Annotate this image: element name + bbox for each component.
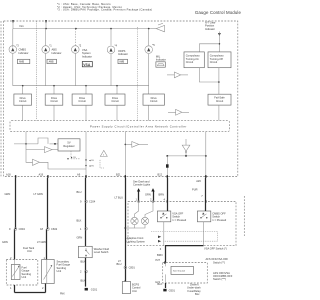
wire turning-off down (218, 68, 220, 95)
svg-text:Circuit: Circuit (186, 60, 194, 64)
drop drive5 to power band (148, 105, 150, 120)
buffer triangle T1 (45, 147, 53, 153)
box VSA OFF switch SW2 (157, 211, 170, 222)
wire CMBS switch down (202, 222, 204, 246)
5V regulator dashed output (70, 151, 72, 159)
svg-text:IG1: IG1 (20, 24, 25, 28)
wire ABS to bus (45, 54, 47, 86)
svg-text:Indicator: Indicator (118, 52, 128, 56)
drop to drive circuit 2 (53, 86, 55, 94)
diode at rail end (150, 28, 156, 30)
pin tick B12 (167, 175, 168, 178)
wire MIL down (148, 54, 150, 94)
svg-text:C602: C602 (51, 227, 58, 231)
wire A26 to border (205, 132, 207, 177)
svg-text:Circuit: Circuit (111, 99, 119, 103)
drop drive2 to power band (53, 105, 55, 120)
box BCPS control unit (122, 282, 130, 294)
AFS arrow 2 (158, 240, 161, 243)
lamp ODPS indicator (107, 46, 115, 54)
wire into T2 (26, 150, 33, 163)
drop to drive circuit 4 (116, 86, 118, 94)
cathode bus (13, 85, 149, 87)
wire fuel sender to ground bus (14, 285, 16, 293)
pin tick top border x13 (12, 20, 13, 22)
svg-text:C204: C204 (89, 200, 96, 204)
pin tick A18 (15, 175, 16, 178)
pin tick P27 entry (164, 261, 165, 263)
svg-text:VSA: VSA (83, 63, 91, 67)
drop to drive circuit 1 (22, 86, 24, 94)
pin ring 1 (138, 201, 140, 203)
main wire band to border B-pin (85, 132, 87, 177)
junction squares (167, 155, 169, 157)
svg-text:PUR: PUR (192, 187, 198, 191)
svg-text:B21: B21 (116, 173, 121, 177)
node 5V arrow a (71, 158, 80, 160)
svg-text:AMB: AMB (19, 61, 24, 64)
wire rail to MIL (148, 29, 150, 46)
wire to buffer T3 (125, 143, 132, 145)
wire secondary to ground bus (45, 284, 47, 293)
wire rail to ABS indicator (45, 29, 47, 46)
box drive circuit 3 (72, 94, 92, 105)
svg-text:Indicator: Indicator (205, 27, 215, 31)
svg-text:Circuit: Circuit (50, 99, 58, 103)
output bus of T4 (167, 155, 206, 157)
svg-text:BLK: BLK (157, 282, 162, 286)
svg-text:GRN: GRN (5, 192, 11, 196)
connector C602 (47, 228, 50, 231)
wire pin4 to VSA switch (167, 202, 169, 212)
package partition dashed line 2 (137, 27, 139, 121)
svg-text:Circuit: Circuit (216, 99, 224, 103)
svg-text:Unit: Unit (27, 249, 32, 253)
wire A/T indicator down (218, 32, 220, 52)
svg-text:P27: P27 (156, 258, 161, 262)
wire inside fuse box lower (165, 274, 167, 283)
driver's under-dash fuse/relay dashed box (163, 263, 208, 284)
drop to drive circuit 3 (85, 86, 87, 94)
gauge control module boundary (dashed box) (4, 21, 238, 177)
INTERNALS (6, 132, 207, 183)
arrow wire dash lights 2 (153, 191, 155, 202)
svg-text:AMB: AMB (49, 61, 54, 64)
wire inside fuse box upper (165, 263, 167, 267)
box compulsory turning-off circuit (208, 52, 231, 68)
svg-text:A19: A19 (39, 173, 44, 177)
buffer triangle MIL upper (174, 72, 180, 78)
connector washer 1 (85, 227, 88, 230)
wire ODPS to bus (110, 54, 112, 86)
box washer fluid level switch SW1 (78, 246, 92, 257)
junction dot at regulator input (54, 143, 56, 145)
resistor R1 (38, 138, 48, 144)
svg-text:A9: A9 (77, 173, 81, 177)
svg-text:Switch (***): Switch (***) (213, 277, 226, 281)
svg-text:1 = Pressed: 1 = Pressed (212, 218, 226, 222)
svg-text:▶ 5V: ▶ 5V (71, 156, 77, 159)
box drive circuit 5 MIL (143, 94, 164, 105)
svg-text:LT BLU: LT BLU (115, 195, 124, 199)
wire A26 down (205, 178, 207, 202)
pin tick 4 (167, 200, 168, 202)
svg-text:GRN: GRN (77, 236, 83, 240)
wire join to P27 (166, 246, 204, 263)
junction dot join (218, 81, 220, 83)
svg-text:◀ 5V: ◀ 5V (89, 159, 95, 162)
svg-text:Circuit: Circuit (210, 60, 218, 64)
svg-text:1 = Pressed: 1 = Pressed (172, 218, 186, 222)
wire CMBS to bus (12, 54, 14, 86)
lamp MIL indicator (145, 46, 153, 54)
svg-text:Circuit: Circuit (19, 99, 27, 103)
power supply / CAN controller dashed box (10, 121, 229, 132)
svg-text:Level Switch: Level Switch (94, 250, 109, 254)
svg-text:GRN: GRN (145, 193, 151, 197)
svg-text:Unit: Unit (132, 289, 137, 293)
pin tick B21 (125, 175, 126, 178)
drop drive1 to power band (22, 105, 24, 120)
dash and console lights dashed box (128, 202, 236, 246)
wire T2 output (40, 162, 87, 169)
buffer triangle MIL lower (176, 109, 182, 115)
svg-text:BRN: BRN (157, 253, 163, 257)
box ODPS color (118, 59, 128, 63)
box fail-safe circuit (208, 94, 231, 105)
svg-text:VSA OFF Switch (*): VSA OFF Switch (*) (204, 247, 227, 251)
junction dot B21 branch (125, 144, 127, 146)
wire B21 down to AFS (125, 178, 127, 282)
BOTTOM (2, 178, 244, 296)
wire turning-on down (199, 68, 219, 82)
svg-text:Switch (**): Switch (**) (213, 260, 225, 264)
package partition dashed line (36, 21, 38, 121)
wire rail to ODPS indicator (110, 29, 112, 46)
pin stub top border x46 (45, 21, 47, 29)
svg-text:A26: A26 (196, 179, 201, 183)
inverter triangle T4 (down) (182, 145, 190, 151)
wire into T1 (26, 144, 45, 150)
ground G201 (85, 272, 87, 287)
box CMBS OFF switch SW3 (197, 211, 210, 222)
junction lamps bus (124, 227, 126, 229)
right page edge dashed (243, 196, 245, 236)
svg-text:C801: C801 (129, 266, 136, 270)
supply wire to 5V regulator (14, 143, 38, 145)
wire rail to CMBS indicator (12, 29, 14, 46)
buffer triangle T2 (33, 159, 40, 165)
svg-text:◀ 5V: ◀ 5V (89, 165, 95, 168)
fuel tank unit dashed box (6, 260, 38, 286)
secondary fuel gauge sending unit box (42, 260, 55, 284)
svg-text:AMB: AMB (119, 61, 124, 64)
svg-text:PNK: PNK (60, 294, 65, 296)
svg-text:Console Lights: Console Lights (133, 183, 151, 187)
lamp CMBS indicator (9, 46, 17, 54)
drop drive4 to power band (116, 105, 118, 120)
svg-text:Box: Box (195, 292, 200, 296)
LEGEND (57, 2, 241, 15)
svg-text:BLU: BLU (117, 262, 122, 266)
lamp AFS right feed (145, 202, 153, 218)
svg-text:Gauge Control Module: Gauge Control Module (195, 10, 242, 15)
inner ground link box (171, 266, 193, 274)
connector C801 (124, 266, 127, 269)
svg-text:BLU: BLU (77, 190, 82, 194)
wire A19 to secondary sender (47, 178, 49, 229)
MODULE (1, 21, 238, 177)
box AMB color (17, 59, 29, 63)
dashed wire rail to VSA indicator (74, 29, 76, 46)
box compulsory turning-on circuit (184, 52, 204, 68)
pin tick A9 (85, 175, 86, 178)
wire B12 to border (166, 156, 168, 177)
pin tick BCPS entry (125, 280, 126, 282)
svg-text:See Ground: See Ground (173, 270, 186, 273)
junction dot supply (25, 143, 27, 145)
lamps ground bus (135, 225, 146, 228)
svg-text:LT GRN: LT GRN (37, 240, 46, 244)
wire VSA switch down (163, 222, 165, 246)
dashed link right of arrows (100, 160, 104, 168)
lamp AFS left feed (135, 202, 139, 218)
svg-text:Power Supply Circuit/Controlle: Power Supply Circuit/Controller Area Net… (90, 125, 187, 129)
fuel gauge sending unit R2 (11, 265, 20, 280)
svg-text:Indicator: Indicator (52, 51, 62, 55)
svg-text:Circuit: Circuit (150, 99, 158, 103)
arrow wire dash lights 1 (138, 191, 140, 202)
connector washer 2 (85, 270, 88, 273)
svg-text:C604: C604 (19, 227, 26, 231)
drop drive3 to power band (85, 105, 87, 120)
pin tick 7 (205, 200, 206, 202)
box drive circuit 4 (105, 94, 125, 105)
lamp AFS right (141, 217, 148, 224)
wire fail-safe to band (218, 105, 220, 121)
junction dots on main wire (85, 159, 87, 161)
wire T3 output (139, 143, 148, 145)
lamp ABS indicator (42, 46, 50, 54)
pin stub top border x13 (12, 21, 14, 29)
arrow below A/T label (218, 33, 221, 36)
wire washer to ground (85, 258, 87, 272)
svg-text:Indicator: Indicator (19, 51, 29, 55)
svg-text:BRN: BRN (159, 193, 165, 197)
svg-text:Circuit: Circuit (78, 99, 86, 103)
junction dots on rail (45, 28, 47, 30)
lamp AFS left (131, 217, 138, 224)
svg-text:LT GRN: LT GRN (34, 192, 43, 196)
svg-text:BLK: BLK (77, 218, 82, 222)
warning triangle U3 (100, 150, 107, 156)
svg-text:Lighting System: Lighting System (127, 240, 145, 244)
pin tick A26 (205, 175, 206, 178)
svg-text:Indicator: Indicator (156, 58, 166, 62)
page edge dashed line left (0, 21, 2, 177)
svg-text:G501: G501 (169, 289, 176, 293)
svg-text:B12: B12 (158, 173, 163, 177)
logo VSA (82, 62, 92, 67)
svg-text:Regulator: Regulator (63, 144, 74, 148)
box AMB color 2 (47, 59, 57, 63)
IG1 supply rail (13, 28, 150, 30)
svg-text:A18: A18 (6, 173, 11, 177)
wire band to supply node (25, 132, 27, 144)
pin tick A19 (47, 175, 48, 178)
pin ring 2 (152, 201, 154, 203)
ground bus PNK (15, 292, 46, 294)
junction dot A/T (219, 43, 221, 45)
connector C604 (14, 228, 17, 231)
wire pin7 to CMBS switch (205, 202, 207, 212)
wire to G501 (165, 283, 167, 288)
box 5V regulator U2 (58, 139, 80, 151)
wire A18 to fuel tank unit (15, 178, 17, 229)
ground G501 (163, 289, 166, 292)
AFS arrow 1 (158, 236, 161, 239)
buffer triangle T3 (132, 142, 139, 148)
svg-text:*3 : USA: DMBU/PAK Package, Ca: *3 : USA: DMBU/PAK Package, Canada: Prem… (57, 8, 152, 12)
inline connector square on B12 wire (166, 164, 169, 167)
INDICATORS (9, 20, 231, 121)
pin tick top border x46 (45, 20, 46, 22)
svg-text:Unit: Unit (22, 275, 27, 279)
svg-text:Unit: Unit (57, 269, 62, 273)
svg-text:Adaptive Front: Adaptive Front (127, 236, 144, 240)
box drive circuit 2 (45, 94, 63, 105)
box MIL icon (156, 62, 165, 67)
wire A9 to washer switch (85, 178, 87, 247)
svg-text:G201: G201 (91, 287, 98, 291)
svg-text:Indicator: Indicator (82, 54, 92, 58)
wire B21 band to border (124, 132, 126, 177)
dotted AFS line 1 (151, 232, 218, 242)
box drive circuit 1 (14, 94, 32, 105)
wire VSA to bus (74, 54, 76, 86)
wire B12 down (167, 178, 169, 202)
svg-text:GRN: GRN (2, 240, 8, 244)
connector C204 (85, 200, 88, 203)
wire A/T branch left (199, 44, 219, 52)
svg-text:BLK: BLK (81, 260, 86, 264)
junction dots on bus (22, 85, 24, 87)
lamp VSA system indicator (72, 46, 80, 54)
